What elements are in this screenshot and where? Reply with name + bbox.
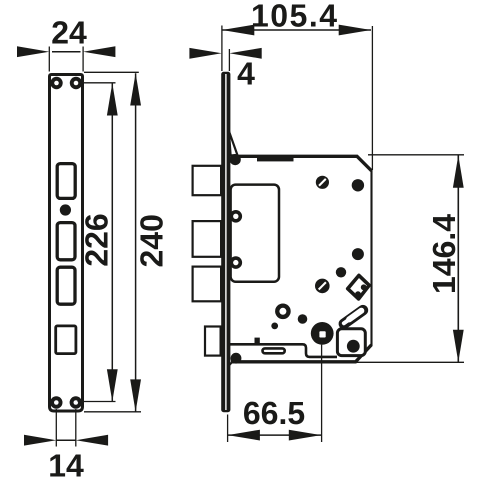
faceplate side bar slit [225, 74, 227, 410]
cutout 3 [57, 267, 75, 304]
latch cutout 1 [57, 164, 75, 199]
diamond bump right [361, 284, 367, 290]
dim 24 arrow right [83, 46, 115, 57]
dim 66.5 line [228, 434, 321, 436]
dim 4 extension lines [222, 26, 230, 72]
dim 14 arrow right [76, 435, 108, 446]
cylinder diamond [348, 275, 370, 299]
dim 105.4 line [222, 29, 371, 31]
pin upper-right [352, 179, 364, 191]
dim 105.4 arrow right [339, 25, 371, 36]
screw hole bottom-right [70, 396, 82, 408]
dim 14 arrow left [24, 435, 56, 446]
dim 226 label [85, 214, 108, 265]
dim 146.4 extension lines [350, 155, 464, 362]
dim 14 line [56, 439, 76, 441]
dim 226 arrow bottom [107, 369, 118, 401]
dim 24 extension lines [49, 47, 83, 72]
dim 105.4 arrow left [222, 25, 254, 36]
dim 14 extension lines [56, 409, 76, 447]
pin above cylinder [336, 267, 346, 277]
lock case outline top [231, 156, 372, 170]
dim 4 arrow left [189, 48, 221, 59]
bottom rivet [231, 353, 242, 364]
dim 226 line [111, 83, 113, 401]
screw lower [315, 279, 330, 294]
dim 24 arrow left [17, 46, 49, 57]
channel tab [255, 338, 260, 345]
dim 240 arrow top [130, 73, 141, 105]
dim 146.4 arrow top [453, 155, 464, 187]
plate hole dot [60, 204, 71, 215]
dim 24 line [52, 51, 81, 53]
lock case bolt block 2 [193, 221, 222, 257]
top rivet [230, 154, 241, 165]
square cutout 4 [56, 326, 76, 354]
inner latch unit rect [231, 185, 279, 282]
pin small [271, 323, 278, 330]
lock case bolt block 1 [193, 166, 222, 195]
dim 226 extension lines [78, 83, 116, 402]
pocket circle [347, 340, 360, 353]
dim 4 label [238, 62, 255, 84]
spring ring [275, 304, 291, 320]
dim 240 extension lines [84, 72, 141, 412]
lock case outline right [370, 170, 372, 347]
dim 240 line [135, 73, 137, 411]
bottom rivet strut [228, 358, 237, 368]
lock case outline bottom [231, 345, 371, 362]
dim 226 arrow top [107, 83, 118, 115]
spindle follower [311, 322, 334, 345]
lock case bolt block 4 [205, 327, 221, 356]
screw upper [316, 176, 329, 189]
guide ring upper [230, 210, 243, 223]
guide ring lower [230, 256, 243, 269]
bottom-right pocket [337, 329, 365, 356]
screw hole top-left [50, 77, 62, 89]
dim 240 label [140, 215, 163, 266]
internal bottom channel [229, 344, 337, 357]
screw hole bottom-left [50, 396, 62, 408]
faceplate front view outline [50, 75, 83, 412]
dim 146.4 arrow bottom [453, 330, 464, 362]
lever slot tilted pill [336, 303, 370, 331]
diamond bump bottom [355, 291, 361, 297]
dim 146.4 line [457, 156, 459, 363]
dim 240 arrow bottom [130, 379, 141, 411]
faceplate side bar [221, 72, 230, 412]
dim 146.4 label [433, 214, 456, 292]
screw hole top-right [70, 77, 82, 89]
dim 66.5 label [244, 402, 304, 425]
dim 4 arrow right [229, 48, 261, 59]
pin mid-right [352, 248, 364, 260]
lock case bolt block 3 [193, 267, 222, 302]
dim 66.5 arrow right [289, 430, 321, 441]
bottom pill slot [263, 348, 285, 353]
pin mid [298, 314, 308, 324]
dim 105.4 label [253, 4, 337, 27]
dim 14 label [50, 454, 83, 476]
latch bolt wedge [229, 131, 238, 155]
top slot marking [257, 158, 294, 162]
cutout 2 [57, 223, 75, 260]
dim 24 label [52, 21, 86, 43]
dim 66.5 arrow left [228, 430, 260, 441]
dim 105.4 extension right [371, 26, 373, 170]
dim 66.5 extension lines [228, 345, 322, 442]
